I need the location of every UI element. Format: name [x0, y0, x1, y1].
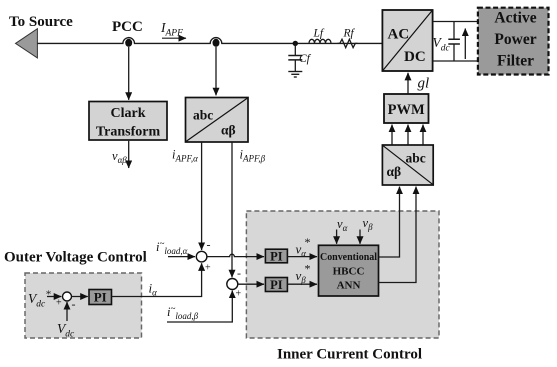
- container: Inner Current Control dashed box: [246, 211, 439, 338]
- svg-text:Clark: Clark: [111, 106, 146, 121]
- summing junction S2 (beta): [227, 279, 238, 290]
- block PI outer voltage: [89, 290, 112, 305]
- svg-text:Inner Current Control: Inner Current Control: [277, 347, 422, 363]
- node PCC junction dot: [125, 39, 132, 47]
- svg-text:iAPF,α: iAPF,α: [172, 148, 198, 164]
- wire i_APF,alpha down to summing junction 1: [201, 142, 203, 250]
- capacitor Cf: [288, 43, 302, 71]
- svg-text:PWM: PWM: [388, 102, 425, 118]
- capacitor DC link: [448, 22, 460, 62]
- wire S2 output to PI: [238, 283, 264, 285]
- wire node to abc transform: [215, 47, 217, 96]
- svg-text:gl: gl: [418, 76, 430, 92]
- wire HBCC output beta to transform: [379, 187, 417, 283]
- summing junction S1 (alpha): [196, 251, 207, 262]
- block abc to alphabeta transform: [186, 98, 249, 143]
- svg-text:Active: Active: [494, 10, 536, 27]
- svg-text:-: -: [72, 297, 76, 311]
- svg-text:Outer Voltage Control: Outer Voltage Control: [4, 250, 147, 266]
- block Active Power Filter: [478, 8, 549, 75]
- svg-text:i~load,α: i~load,α: [156, 239, 188, 257]
- wire gate signal PWM to converter: [407, 73, 409, 94]
- block PWM: [384, 94, 429, 123]
- wire i_APF,beta down to summing junction 2: [231, 142, 233, 277]
- svg-text:*: *: [305, 262, 311, 276]
- svg-text:PI: PI: [270, 249, 283, 263]
- block PI inner beta: [265, 278, 287, 292]
- svg-text:Conventional: Conventional: [320, 251, 377, 263]
- svg-text:abc: abc: [193, 108, 213, 123]
- svg-text:AC: AC: [388, 27, 410, 43]
- container: Outer Voltage Control dashed box: [25, 273, 142, 338]
- svg-text:Filter: Filter: [497, 53, 534, 70]
- svg-text:Rf: Rf: [343, 28, 356, 40]
- svg-text:*: *: [305, 235, 311, 249]
- svg-text:+: +: [236, 289, 242, 300]
- wire: main AC bus with hops at PCC and node2: [37, 38, 382, 44]
- svg-text:abc: abc: [406, 151, 426, 166]
- svg-text:HBCC: HBCC: [333, 265, 365, 277]
- wire PWM input 1: [391, 125, 393, 145]
- svg-text:ANN: ANN: [337, 279, 361, 291]
- svg-text:Power: Power: [494, 31, 536, 48]
- svg-text:+: +: [56, 298, 62, 309]
- svg-text:Transform: Transform: [96, 125, 161, 140]
- svg-text:vαβ: vαβ: [112, 149, 127, 165]
- svg-text:IAPF: IAPF: [160, 20, 183, 39]
- wire v_beta into HBCC top: [359, 230, 361, 244]
- svg-text:αβ: αβ: [387, 164, 402, 179]
- wire DC- bus: [433, 60, 478, 62]
- svg-text:αβ: αβ: [221, 123, 236, 138]
- source arrow (to source): [16, 29, 38, 58]
- svg-text:Cf: Cf: [299, 53, 312, 65]
- wire DC+ bus: [433, 21, 478, 23]
- wire i_alpha from PI to S1 bottom: [112, 263, 202, 296]
- svg-text:To Source: To Source: [9, 14, 73, 30]
- wire PI alpha to HBCC: [287, 256, 317, 258]
- summing junction S3 (dc voltage): [63, 292, 72, 301]
- svg-text:Lf: Lf: [313, 28, 325, 40]
- arrow under I_APF: [162, 37, 186, 39]
- svg-text:PI: PI: [270, 278, 283, 292]
- node Cf tap dot: [293, 41, 298, 46]
- svg-text:-: -: [207, 238, 211, 252]
- arrow V_dc sense: [464, 29, 466, 60]
- wire V_dc feedback into S3: [66, 302, 68, 321]
- block Conventional HBCC ANN: [319, 245, 379, 296]
- wire v_alphabeta output arrow: [128, 141, 130, 168]
- svg-text:+: +: [205, 263, 211, 274]
- node junction dot (abc tap): [213, 39, 220, 47]
- resistor Rf: [338, 39, 358, 47]
- wire V_dc* into S3: [47, 296, 61, 298]
- block alphabeta to abc transform: [382, 145, 433, 185]
- wire i~load,beta into S2: [167, 291, 232, 322]
- svg-text:Vdc: Vdc: [433, 35, 451, 54]
- svg-text:iα: iα: [149, 281, 158, 298]
- svg-text:-: -: [237, 266, 241, 280]
- wire PI beta to HBCC: [287, 283, 317, 285]
- block AC/DC converter: [382, 10, 432, 71]
- wire S3 to PI outer: [72, 296, 88, 298]
- block PI inner alpha: [265, 249, 287, 263]
- svg-text:DC: DC: [404, 49, 426, 65]
- wire PCC to Clark Transform: [128, 47, 130, 100]
- wire HBCC output alpha to transform: [379, 187, 400, 257]
- wire S1 output to PI (hop over i_APF,beta wire): [207, 254, 264, 256]
- block Clark Transform: [89, 102, 167, 141]
- wire i~load,alpha into S1: [168, 256, 195, 258]
- svg-text:iAPF,β: iAPF,β: [240, 148, 266, 164]
- svg-text:i~load,β: i~load,β: [167, 304, 199, 322]
- inductor Lf: [309, 39, 331, 43]
- wire PWM input 2: [407, 125, 409, 145]
- wire v_alpha into HBCC top: [336, 230, 338, 244]
- wire PWM input 3: [422, 125, 424, 145]
- svg-text:PI: PI: [94, 290, 107, 305]
- ground: [288, 72, 302, 78]
- svg-text:PCC: PCC: [112, 19, 143, 35]
